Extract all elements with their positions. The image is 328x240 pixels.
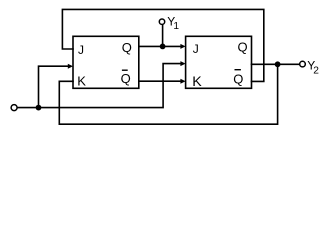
svg-text:1: 1 (173, 21, 179, 32)
svg-text:Q: Q (122, 40, 132, 55)
svg-text:J: J (78, 43, 84, 57)
svg-text:Q: Q (121, 71, 131, 86)
svg-text:J: J (193, 42, 199, 56)
svg-text:Q: Q (238, 40, 248, 55)
svg-text:2: 2 (313, 66, 319, 77)
svg-text:K: K (77, 74, 86, 89)
svg-text:Q: Q (233, 72, 243, 87)
svg-text:K: K (192, 74, 202, 90)
